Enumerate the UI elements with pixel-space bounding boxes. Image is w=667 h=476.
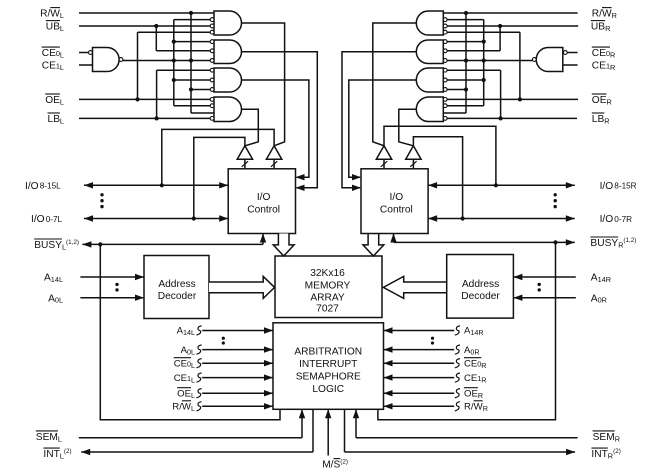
node SEML label [36,431,62,443]
junction NAND out to CE rail [172,58,176,62]
wire G1 output [242,23,285,146]
node A0R label [591,293,607,304]
svg-text:8-15R: 8-15R [614,182,636,191]
svg-text:OE: OE [464,388,478,399]
junction right CE rail g3 [482,78,486,82]
wire right LB vertical rail [500,70,502,118]
junction UBR to rail [498,24,502,28]
wire UB vertical rail [155,26,157,51]
node arb A14L label [177,326,195,338]
wire INTL line [81,409,313,455]
node R/WL label [40,8,64,20]
wire arb RWL input [196,402,273,411]
svg-text:0R: 0R [598,296,607,305]
svg-text:UB: UB [46,22,60,33]
block right Address Decoder [447,255,514,319]
node I/O 8-15L label [25,181,61,192]
svg-text:CE: CE [174,373,187,384]
node I/O 0-7R label [600,214,633,225]
ellipsis left addr [115,283,118,292]
node A0L label [48,293,63,304]
wire stub g1r in2 [447,19,484,21]
wire T1 data feed [194,137,245,218]
wire I/O 8-15R bus [428,182,575,188]
wire stub g2r in2 [447,50,500,52]
svg-text:I/O: I/O [390,192,404,203]
svg-text:R: R [478,391,483,400]
svg-text:14L: 14L [183,328,195,337]
svg-text:L: L [60,24,64,33]
and gate G1R [416,11,447,35]
bus arrow decoderL to memory [209,276,275,298]
node arb RWL label [172,401,195,413]
wire M/S line [325,409,331,455]
svg-text:UB: UB [591,22,605,33]
node A14L label [44,273,63,284]
svg-text:14R: 14R [598,275,611,284]
node arb CE0R label [464,358,487,370]
svg-text:0R: 0R [470,347,479,356]
node CE1R label [592,61,615,72]
arrow G3 into IO control [296,174,305,180]
svg-text:R/: R/ [464,402,474,413]
wire CE1R input line [563,64,578,66]
junction RW rail g3 [189,87,193,91]
svg-text:L: L [191,404,195,413]
wire stub g3 in1 [157,69,211,71]
junction T2 feed on IO8-15 [160,183,164,187]
svg-text:(2): (2) [64,448,72,455]
wire right OE vertical rail [519,32,521,99]
junction OER to rail [518,97,522,101]
wire stub g1r in4 [447,31,520,33]
svg-text:CE: CE [42,61,56,72]
wire CE1L input line [79,64,93,66]
and gate G1 [210,11,241,35]
block left Address Decoder [144,256,209,319]
svg-text:I/O: I/O [257,192,271,203]
wire I/O 8-15L bus [84,182,228,188]
junction R/WR to rail [464,11,468,15]
buffer T4 [406,146,421,169]
wire right UB vertical rail [499,26,501,51]
buffer T3 [376,146,391,169]
junction NAND rail at RW rail [189,58,193,62]
node I/O 0-7L label [31,214,63,225]
wire OE vertical rail [137,32,139,99]
wire right wrap to arbiter [378,242,556,419]
svg-text:Address: Address [158,279,195,290]
and gate G3 [210,68,241,92]
node R/WR label [592,8,617,20]
wire arb CE0L input [196,359,273,368]
wire stub g4 in2 [174,105,210,107]
node CE0L label [42,47,64,59]
and gate G3R [416,68,447,92]
and gate G2 [210,40,241,64]
block right I/O Control [361,169,428,234]
wire left NAND output rail [123,60,210,62]
wire stub g4 in3 [191,112,214,114]
wire stub g2 in1 [174,41,210,43]
svg-text:R: R [605,24,610,33]
junction LBR to rail [499,116,503,120]
node INTR label [591,448,620,461]
node A14R label [591,273,611,284]
wire G4R output [399,109,417,146]
bus arrow decoderR to memory [383,276,446,298]
node OEL label [45,94,64,106]
svg-text:7027: 7027 [316,304,339,315]
block arbitration logic [273,323,384,410]
node arb CE0L label [174,358,195,370]
svg-text:0L: 0L [55,296,63,305]
wire I/O 0-7R bus [428,215,575,221]
node arb A0L label [181,345,195,357]
svg-text:R: R [615,434,620,443]
node arb OEL label [177,388,195,400]
node CE0R label [592,47,615,59]
wire right CE vertical rail [483,20,485,106]
svg-text:CE: CE [464,373,477,384]
svg-text:ARBITRATION: ARBITRATION [294,347,362,358]
svg-text:Decoder: Decoder [461,291,500,302]
node arb OER label [464,388,483,400]
svg-text:LB: LB [48,114,61,125]
svg-text:R: R [483,404,488,413]
arrow G2R into IO control [352,185,361,191]
svg-text:0L: 0L [187,347,195,356]
wire G3 output [242,80,309,177]
junction right CE rail g2 [482,40,486,44]
wire arb CE1L input [196,373,273,382]
junction BUSYR wrap [553,240,557,244]
svg-text:0-7L: 0-7L [46,215,63,224]
svg-text:R: R [481,361,486,370]
wire BUSYR line [390,234,575,246]
svg-text:R: R [604,116,609,125]
ellipsis right io [554,193,557,208]
node SEMR label [593,431,620,443]
wire A0L line [80,295,144,301]
wire arb CE0R input [384,359,461,368]
wire stub g2r in1 [447,41,484,43]
wire R/WL input line [79,12,214,14]
svg-text:INTERRUPT: INTERRUPT [299,359,357,370]
node arb CE1R label [464,373,487,385]
arrow G3R into IO control [352,174,361,180]
node INTL label [43,448,71,461]
wire A14L line [80,274,144,280]
ellipsis arb left [222,337,225,345]
svg-text:Control: Control [247,204,280,215]
bus arrow right ioctl to memory [363,234,384,257]
node OER label [592,94,612,106]
svg-text:R: R [481,375,486,384]
svg-text:CE: CE [592,61,606,72]
wire left wrap to arbiter [100,244,280,419]
node LBR label [592,113,610,125]
svg-text:L: L [58,434,62,443]
wire arb CE1R input [384,373,461,382]
svg-text:I/O: I/O [600,181,614,192]
bus arrow left ioctl to memory [273,234,294,257]
wire stub g3 in2 [174,79,210,81]
block left I/O Control [228,169,295,234]
svg-text:Decoder: Decoder [158,291,197,302]
wire stub g3r in3 [447,89,466,91]
svg-text:CE: CE [174,358,187,369]
svg-text:CE: CE [592,48,606,59]
svg-text:M/: M/ [322,460,333,471]
wire G4 output [242,109,259,146]
wire INTR line [345,409,576,455]
svg-text:I/O: I/O [25,181,39,192]
svg-text:R/: R/ [592,9,602,20]
svg-text:I/O: I/O [31,214,45,225]
node arb CE1L label [174,373,195,385]
wire arb A14R input [384,326,461,335]
wire arb A0R input [384,345,461,354]
nand gate right CE [532,48,567,72]
wire T3 data feed [384,126,496,185]
wire T2 data feed [162,129,274,185]
svg-text:L: L [60,11,64,20]
wire right NAND output rail [447,60,532,62]
wire G3R output [349,80,417,177]
junction OEL to rail [135,97,139,101]
node BUSYR label [590,237,636,250]
wire SEMR line [353,409,578,438]
svg-text:L: L [60,116,64,125]
svg-text:L: L [191,375,195,384]
wire stub g3r in2 [447,79,484,81]
svg-text:BUSY: BUSY [590,238,618,249]
wire G2R output [342,52,416,188]
wire UBR input line [447,25,578,27]
svg-text:L: L [60,51,64,60]
wire arb A14L input [196,326,273,335]
wire arb RWR input [384,402,461,411]
ellipsis right addr [538,283,541,292]
svg-text:INT: INT [591,449,607,460]
svg-text:CE: CE [464,358,477,369]
wire stub g3 in3 [191,89,210,91]
junction right NAND at CE rail [482,58,486,62]
svg-text:BUSY: BUSY [34,240,62,251]
svg-text:CE: CE [42,48,56,59]
junction CE rail g2 [172,40,176,44]
and gate G4 [210,97,241,122]
wire stub g2 in2 [156,50,210,52]
node BUSYL label [34,239,79,252]
wire OEL input line [79,98,210,100]
svg-text:(2): (2) [613,448,621,455]
svg-text:LB: LB [592,114,605,125]
buffer T2 [266,146,281,169]
svg-text:0-7R: 0-7R [614,215,632,224]
and gate G2R [416,40,447,64]
svg-text:L: L [60,97,64,106]
node arb RWR label [464,401,488,413]
svg-text:(1,2): (1,2) [623,237,636,244]
svg-text:(2): (2) [340,459,348,466]
arrow G2 into IO control [296,185,305,191]
svg-text:OE: OE [177,388,191,399]
node M/S label [322,459,348,471]
wire T4 data feed [413,137,462,219]
svg-text:OE: OE [592,95,607,106]
wire UBL input line [79,25,210,27]
wire LBL input line [79,117,210,119]
buffer T1 [237,146,252,169]
and gate G4R [416,97,447,122]
svg-text:Control: Control [380,204,413,215]
svg-text:(1,2): (1,2) [66,239,79,246]
node arb A14R label [464,326,484,338]
svg-text:SEM: SEM [36,432,58,443]
svg-text:R: R [610,63,615,72]
wire G1R output [373,23,417,146]
wire arb A0L input [196,345,273,354]
wire stub g3r in1 [447,69,501,71]
svg-text:L: L [191,361,195,370]
svg-text:SEMAPHORE: SEMAPHORE [296,371,361,382]
wire CE0L input line [79,52,88,54]
wire RW vertical rail [190,13,192,113]
junction R/WL to rail [189,11,193,15]
junction T4 feed on IO0-7R [461,216,465,220]
svg-text:LOGIC: LOGIC [312,384,344,395]
svg-text:14L: 14L [51,275,63,284]
junction BUSYL wrap [98,242,102,246]
wire stub g1 in4 [138,31,211,33]
wire CE0R input line [567,52,577,54]
svg-text:R/: R/ [172,402,182,413]
wire stub g4r in3 [443,112,466,114]
junction LBL to rail [155,116,159,120]
svg-text:R: R [612,11,617,20]
svg-text:L: L [191,391,195,400]
wire R/WR input line [443,12,577,14]
wire stub g4r in2 [447,105,484,107]
svg-text:R: R [607,97,612,106]
wire BUSYL line [82,234,266,248]
wire A14R line [513,274,575,280]
wire LBR input line [447,117,577,119]
svg-text:W: W [50,9,60,20]
ellipsis arb right [431,337,434,345]
node LBL label [48,113,64,125]
junction T3 feed on IO8-15R [494,183,498,187]
svg-text:MEMORY: MEMORY [305,281,351,292]
node CE1L label [42,61,64,72]
wire arb OER input [384,389,461,398]
nand gate left CE [89,48,123,72]
svg-text:R: R [610,51,615,60]
wire SEML line [79,409,305,438]
ellipsis left io [100,193,103,208]
wire G2 output [242,52,318,188]
svg-text:R/: R/ [40,9,50,20]
svg-text:32Kx16: 32Kx16 [310,268,345,279]
junction right RW rail g3 [464,87,468,91]
junction CE rail g3 [172,78,176,82]
junction right NAND at RW rail [464,58,468,62]
svg-text:8-15L: 8-15L [40,182,61,191]
svg-text:ARRAY: ARRAY [310,292,345,303]
wire LB vertical rail [156,70,158,118]
node UBL label [46,21,64,33]
node I/O 8-15R label [600,181,637,192]
junction T1 feed on IO0-7 [192,216,196,220]
svg-text:I/O: I/O [600,214,614,225]
wire A0R line [513,295,575,301]
svg-text:L: L [60,63,64,72]
svg-text:SEM: SEM [593,432,615,443]
wire OER input line [447,98,578,100]
wire stub g1 in2 [174,19,210,21]
node arb A0R label [464,345,480,357]
svg-text:Address: Address [462,279,499,290]
wire I/O 0-7L bus [84,215,228,221]
node UBR label [591,21,610,33]
svg-text:W: W [602,9,612,20]
wire CE vertical rail [173,20,175,106]
svg-text:14R: 14R [470,328,483,337]
svg-text:OE: OE [45,95,60,106]
svg-text:INT: INT [43,449,59,460]
junction UBL to rail [154,24,158,28]
wire arb OEL input [196,389,273,398]
wire right RW vertical rail [465,13,467,113]
block memory array [275,256,382,318]
